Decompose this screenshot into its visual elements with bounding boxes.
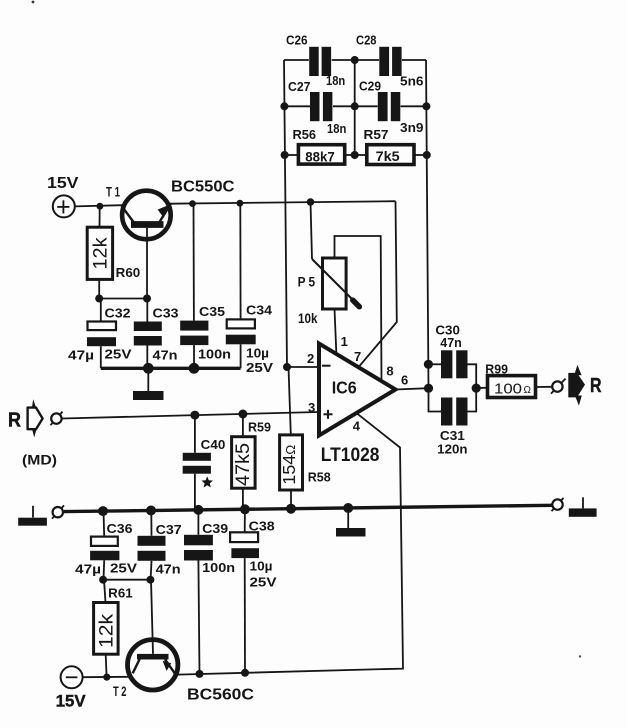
- label 25V (C36): [110, 561, 137, 576]
- svg-text:R57: R57: [364, 127, 389, 142]
- label R59: [248, 420, 271, 435]
- label pin 8: [386, 364, 393, 379]
- svg-text:25V: 25V: [250, 575, 277, 590]
- node junction input-R59: [238, 410, 247, 419]
- svg-text:R: R: [8, 410, 21, 432]
- node junction base2-C37: [146, 576, 154, 584]
- wire T1 base node: [99, 298, 147, 300]
- capacitor C28 5n6: [355, 47, 426, 76]
- label 3n9 (C29): [400, 121, 424, 135]
- capacitor C35 100n: [180, 204, 208, 369]
- svg-text:47n: 47n: [153, 348, 178, 363]
- label pin 7: [354, 349, 361, 364]
- label 18n (C26): [326, 74, 345, 88]
- svg-text:IC6: IC6: [332, 378, 357, 398]
- node junction rail-wiper: [307, 198, 315, 206]
- ground rail connector circle left: [52, 505, 64, 518]
- node junction right-R57: [423, 151, 431, 159]
- wire ground rail: [64, 505, 552, 511]
- node junction rail-C36: [98, 506, 108, 516]
- svg-text:C28: C28: [356, 34, 377, 48]
- svg-text:10µ: 10µ: [246, 346, 269, 361]
- resistor R56 88k7: [285, 145, 355, 164]
- label BC550C: [171, 179, 235, 196]
- svg-text:10µ: 10µ: [250, 559, 273, 574]
- node junction left-C27: [280, 102, 288, 110]
- label C33: [153, 306, 179, 321]
- label 47u: [68, 348, 94, 363]
- label 15V top: [47, 175, 79, 192]
- resistor R61 12k: [94, 580, 119, 677]
- label C40: [201, 437, 226, 452]
- label R input: [8, 410, 21, 432]
- label 88k7: [305, 149, 335, 164]
- resistor R57 7k5: [355, 145, 427, 165]
- label 100ohm: [494, 380, 532, 397]
- svg-text:C27: C27: [288, 80, 310, 94]
- node junction out-C30: [424, 360, 433, 369]
- svg-text:5n6: 5n6: [400, 75, 424, 89]
- node junction mid-R56R57: [351, 151, 359, 159]
- label 47k5 (R59, rotated): [233, 443, 254, 486]
- label 12k (R61, rotated): [97, 613, 118, 648]
- capacitor C31 120n: [429, 388, 477, 425]
- node junction -15V-R61: [103, 674, 110, 681]
- node junction neg rail-C39: [196, 670, 204, 678]
- label C29: [359, 80, 381, 94]
- ground rail connector circle right: [552, 498, 564, 511]
- svg-text:R: R: [590, 375, 602, 397]
- resistor R59 47k5: [232, 414, 256, 510]
- node junction rail-R60: [97, 203, 104, 210]
- label LT1028: [321, 445, 380, 466]
- wire P5 top to pin 8: [335, 236, 382, 381]
- label pin 4: [353, 419, 361, 434]
- svg-text:8: 8: [386, 364, 393, 379]
- svg-text:R59: R59: [248, 420, 271, 435]
- supply terminal -15V: [61, 666, 83, 688]
- svg-text:2: 2: [307, 351, 314, 366]
- node junction base2-R61: [99, 576, 107, 584]
- svg-text:100n: 100n: [202, 560, 235, 575]
- label 18n (C27): [327, 122, 346, 136]
- resistor R99 100ohm: [476, 376, 552, 398]
- svg-text:88k7: 88k7: [305, 149, 335, 164]
- svg-text:7: 7: [354, 349, 361, 364]
- label 25V (C34): [246, 360, 273, 375]
- svg-text:C26: C26: [286, 34, 308, 48]
- output connector circle: [551, 379, 566, 394]
- svg-text:C36: C36: [107, 521, 133, 536]
- capacitor C26 18n: [284, 47, 355, 76]
- svg-text:4: 4: [353, 419, 361, 434]
- svg-text:C33: C33: [153, 306, 179, 321]
- capacitor C36 47u 25V electrolytic: [90, 511, 119, 580]
- node junction base-R60: [95, 295, 103, 303]
- node junction rail-C38: [240, 504, 250, 514]
- ground symbol right: [569, 497, 597, 517]
- svg-text:R60: R60: [116, 265, 141, 280]
- svg-text:47n: 47n: [156, 562, 181, 577]
- label BC560C: [187, 687, 254, 704]
- node junction right-C29: [422, 102, 430, 110]
- svg-text:C29: C29: [359, 80, 381, 94]
- potentiometer P5 wiper arrow: [312, 259, 359, 307]
- svg-text:25V: 25V: [246, 360, 273, 375]
- node junction pin2: [283, 363, 291, 371]
- svg-text:15V: 15V: [47, 175, 79, 192]
- wire wiper link from rail to P5 wiper: [311, 202, 313, 259]
- label C37: [156, 522, 182, 537]
- label 100n (C35): [198, 347, 231, 362]
- label 47n (C30): [440, 335, 462, 350]
- paper speck right: [579, 655, 581, 657]
- capacitor C37 47n: [138, 511, 166, 580]
- label 47n (C37): [156, 562, 181, 577]
- svg-text:R99: R99: [485, 362, 508, 377]
- label C38: [249, 519, 275, 534]
- svg-text:18n: 18n: [326, 74, 345, 88]
- wire input to pin 3: [62, 412, 319, 419]
- node junction bus-C35: [189, 363, 200, 374]
- ground symbol mid: [336, 508, 366, 537]
- svg-text:25V: 25V: [110, 561, 137, 576]
- svg-text:25V: 25V: [105, 347, 132, 362]
- supply terminal +15V: [53, 195, 75, 217]
- label 5n6 (C28): [400, 75, 424, 89]
- node junction rail-C34: [237, 200, 244, 207]
- capacitor C29 3n9: [355, 92, 427, 121]
- label C36: [107, 521, 133, 536]
- node junction rail-C35: [189, 200, 196, 207]
- label 10u (C34): [246, 346, 269, 361]
- node junction base-C33: [143, 295, 151, 303]
- wire pin 7 feed (corner down, diagonal to op-amp pin 7): [359, 201, 397, 366]
- label C31: [440, 428, 465, 443]
- wire pin 6 output: [396, 388, 429, 389]
- node junction rail-C37: [146, 506, 156, 516]
- node junction rail-C39: [193, 505, 203, 515]
- label 10u (C38): [250, 559, 273, 574]
- wire feedback left vertical: [284, 60, 287, 367]
- node junction input-C40: [190, 411, 199, 420]
- label R99: [485, 362, 508, 377]
- label asterisk C40: [202, 476, 213, 487]
- svg-text:T 2: T 2: [113, 684, 127, 699]
- label 100n (C39): [202, 560, 235, 575]
- svg-text:47µ: 47µ: [68, 348, 94, 363]
- label C32: [105, 306, 131, 321]
- svg-text:BC550C: BC550C: [171, 179, 235, 196]
- svg-text:BC560C: BC560C: [187, 687, 254, 704]
- svg-text:C34: C34: [246, 303, 273, 318]
- label 25V (C38): [250, 575, 277, 590]
- input connector circle: [51, 412, 63, 426]
- svg-text:R58: R58: [308, 470, 331, 485]
- capacitor C40: [183, 415, 211, 510]
- svg-text:T 1: T 1: [106, 185, 120, 200]
- input arrow symbol R: [28, 399, 43, 437]
- output arrow symbol R: [568, 365, 585, 406]
- label 47n (C33): [153, 348, 178, 363]
- node junction C30C31-R99: [472, 384, 481, 393]
- label C27: [288, 80, 310, 94]
- label pin 1: [341, 334, 348, 349]
- wire P5 bottom to pin 1: [335, 309, 337, 352]
- svg-text:C39: C39: [202, 521, 228, 536]
- label R57: [364, 127, 389, 142]
- wire pin 2: [287, 366, 319, 368]
- svg-text:47n: 47n: [440, 335, 462, 350]
- capacitor C30 47n: [428, 350, 476, 388]
- capacitor C27 18n: [284, 92, 354, 121]
- capacitor C38 10u 25V electrolytic: [230, 509, 259, 673]
- resistor R60 12k: [87, 206, 112, 298]
- svg-text:18n: 18n: [327, 122, 346, 136]
- label pin 3: [308, 400, 315, 415]
- label R56: [293, 127, 317, 142]
- label C30: [435, 323, 460, 338]
- svg-text:C38: C38: [249, 519, 275, 534]
- svg-text:1: 1: [341, 334, 348, 349]
- svg-text:100n: 100n: [198, 347, 231, 362]
- svg-text:12k: 12k: [91, 237, 112, 270]
- svg-text:R56: R56: [293, 127, 317, 142]
- wire pin 4 to negative rail: [178, 413, 404, 675]
- label 10k: [298, 311, 318, 326]
- svg-text:7k5: 7k5: [376, 149, 401, 164]
- wire T2 base node: [103, 579, 150, 581]
- label C34: [246, 303, 273, 318]
- svg-text:R61: R61: [108, 586, 133, 601]
- svg-text:C37: C37: [156, 522, 182, 537]
- svg-text:LT1028: LT1028: [321, 445, 380, 466]
- label T2: [113, 684, 127, 699]
- label C39: [202, 521, 228, 536]
- ground below C33: [133, 368, 164, 400]
- label C35: [199, 304, 225, 319]
- wire top rail from T1 emitter to corner above op-amp: [170, 201, 396, 204]
- capacitor C39 100n: [184, 510, 213, 674]
- label R58: [308, 470, 331, 485]
- svg-text:100: 100: [494, 380, 522, 397]
- svg-text:12k: 12k: [97, 613, 118, 648]
- svg-text:P 5: P 5: [298, 275, 316, 290]
- wire top rail from +15V to T1: [75, 205, 123, 206]
- wire C32..C34 bottom bus: [101, 367, 241, 370]
- node junction left-R56: [281, 151, 289, 159]
- label pin 6: [401, 373, 408, 388]
- svg-text:C35: C35: [199, 304, 225, 319]
- op-amp IC6 LT1028: [319, 344, 396, 436]
- label T1: [106, 185, 120, 200]
- wire feedback right vertical: [426, 60, 429, 388]
- node junction rail-R58: [286, 504, 296, 514]
- capacitor C32 47u 25V electrolytic: [87, 299, 116, 369]
- transistor T1 BC550C: [122, 191, 171, 299]
- wire -15V to T2: [82, 676, 131, 678]
- wire feedback middle vertical: [354, 60, 356, 155]
- label 7k5: [376, 149, 401, 164]
- node junction mid-C26C28: [351, 56, 359, 64]
- label C26: [286, 34, 308, 48]
- resistor R58 154ohm: [280, 367, 303, 509]
- label 15V bottom: [56, 693, 86, 711]
- label 25V: [105, 347, 132, 362]
- node junction rail-ground mid: [343, 503, 353, 513]
- label R60: [116, 265, 141, 280]
- paper speck top left: [32, 1, 35, 4]
- svg-text:C40: C40: [201, 437, 226, 452]
- potentiometer P5 body 10k: [323, 258, 347, 309]
- label 120n (C31): [437, 442, 467, 457]
- node junction out-main: [424, 384, 433, 393]
- label 47u (C36): [75, 562, 101, 577]
- node junction mid-C27C29: [351, 102, 359, 110]
- svg-text:47µ: 47µ: [75, 562, 101, 577]
- node junction bus-C33: [143, 363, 154, 374]
- svg-text:15V: 15V: [56, 693, 86, 711]
- label C28: [356, 34, 377, 48]
- capacitor C34 10u 25V electrolytic: [226, 203, 256, 368]
- transistor T2 BC560C: [128, 580, 178, 690]
- capacitor C33 47n: [134, 299, 162, 369]
- label 154ohm (R58, rotated): [279, 444, 299, 484]
- label R output: [590, 375, 602, 397]
- node junction neg rail-C38: [241, 669, 249, 677]
- label P5: [298, 275, 316, 290]
- svg-text:47k5: 47k5: [233, 443, 254, 486]
- svg-text:120n: 120n: [437, 442, 467, 457]
- label (MD): [22, 453, 57, 468]
- svg-text:6: 6: [401, 373, 408, 388]
- svg-text:10k: 10k: [298, 311, 318, 326]
- svg-text:Ω: Ω: [524, 385, 532, 396]
- svg-text:3n9: 3n9: [400, 121, 424, 135]
- svg-text:(MD): (MD): [22, 453, 57, 468]
- ground symbol left: [18, 506, 47, 526]
- svg-text:C32: C32: [105, 306, 131, 321]
- label 12k (R60, rotated): [91, 237, 112, 270]
- label pin 2: [307, 351, 314, 366]
- label R61: [108, 586, 133, 601]
